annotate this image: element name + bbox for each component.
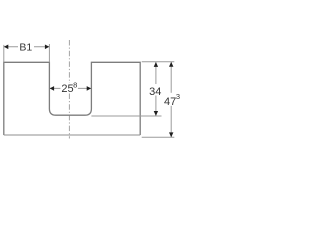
svg-text:8: 8 [73,81,77,90]
arrow 25.8 left [50,86,54,91]
dimension line B1 [4,46,48,48]
svg-text:34: 34 [149,86,161,98]
arrow 47.3 up [169,62,173,67]
top extension line (34 and 47.3) [142,61,175,63]
svg-text:25: 25 [61,83,73,95]
bottom extension line (47.3) [142,136,175,138]
dimension line 34 [155,62,157,116]
plate bottom edge [4,134,140,136]
svg-text:3: 3 [176,92,180,101]
extension line left edge (B1) [3,45,5,62]
label B1 [18,42,34,52]
arrow B1 left [4,45,8,50]
svg-text:B1: B1 [19,41,32,53]
label 47^3 [163,93,180,106]
arrow 34 down [154,111,158,116]
extension line notch left wall (B1) [48,44,50,62]
svg-text:47: 47 [164,96,176,108]
arrow 34 up [154,62,158,67]
arrow 25.8 right [87,86,91,91]
centerline (vertical dash-dot through notch) [68,40,70,139]
label 25^8 [60,83,78,94]
arrow B1 right [45,45,49,50]
dimension line 47.3 [170,62,172,137]
plate outline with U-notch [4,62,140,135]
arrow 47.3 down [169,132,173,137]
dimension line 25.8 (notch width) [50,87,91,89]
notch-bottom extension line (34) [91,115,161,117]
label 34 [150,84,162,96]
